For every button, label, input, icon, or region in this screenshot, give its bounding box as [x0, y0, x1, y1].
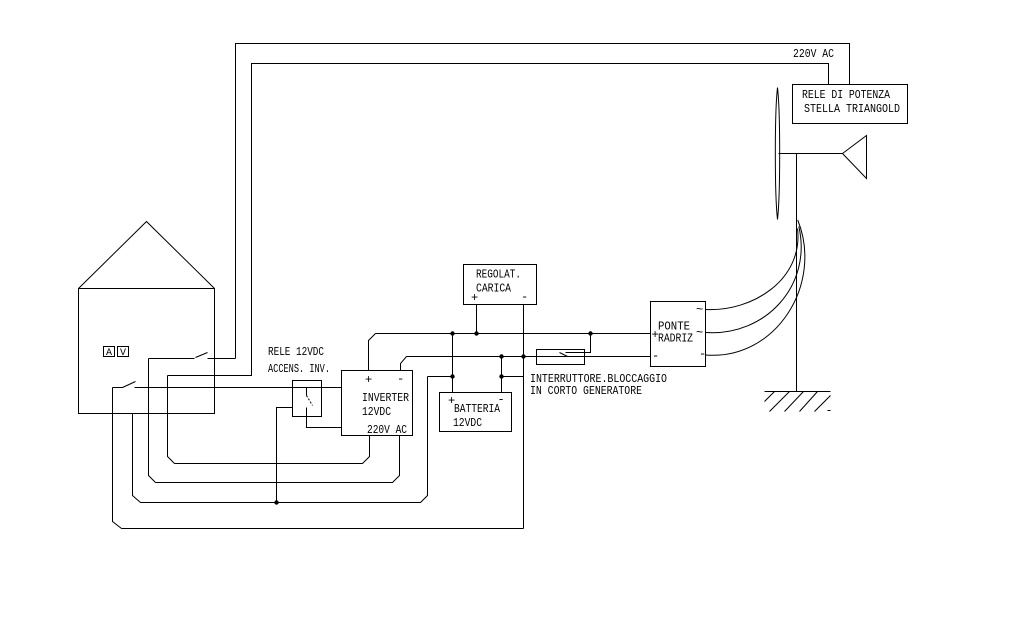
svg-text:STELLA TRIANGOLD: STELLA TRIANGOLD — [804, 102, 900, 116]
svg-text:INVERTER: INVERTER — [362, 391, 409, 405]
wire S3 to bus1 — [566, 334, 591, 353]
svg-text:+: + — [471, 291, 478, 305]
inverter U1 box — [342, 371, 413, 436]
svg-text:RELE DI POTENZA: RELE DI POTENZA — [802, 88, 891, 102]
svg-text:-: - — [699, 347, 706, 361]
wire row D (S2 to battery- rail) — [122, 528, 524, 530]
svg-text:IN CORTO GENERATORE: IN CORTO GENERATORE — [530, 384, 642, 398]
regulator U2 box REGOLAT. CARICA — [464, 265, 537, 305]
svg-text:ACCENS. INV.: ACCENS. INV. — [268, 362, 330, 376]
svg-text:-: - — [498, 393, 505, 407]
wire inverter - to bus2 — [401, 357, 407, 371]
wire bus2 (-12V rail) — [407, 356, 651, 358]
svg-text:12VDC: 12VDC — [453, 416, 482, 430]
relay K1 actuator (dashed) — [307, 396, 313, 406]
junction bus2/regulator- — [521, 354, 525, 358]
svg-text:12VDC: 12VDC — [362, 405, 391, 419]
relay K1 box RELE 12VDC ACCENS. INV. — [293, 381, 322, 417]
wire generator phase 2 (curve) — [706, 227, 802, 333]
wire regulator - down through bus2 to row D — [523, 305, 525, 529]
wire 220V AC line 1 (from house switch S1 up and across to relay box) — [236, 44, 850, 359]
svg-text:-: - — [521, 290, 528, 304]
wire bus3 right segment — [502, 376, 524, 378]
wind turbine tail fin — [843, 136, 867, 179]
svg-text:RADRIZ: RADRIZ — [658, 332, 693, 346]
wire battery + riser — [452, 334, 454, 393]
svg-text:V: V — [120, 348, 126, 359]
rectifier U3 box PONTE RADRIZ — [651, 302, 706, 367]
wire regulator + to bus1 — [476, 305, 478, 334]
wire descender from S1 to row B — [149, 359, 156, 483]
mast — [796, 154, 798, 392]
wire descender from S2 to row D — [113, 388, 122, 529]
wire bus3 left segment — [428, 376, 453, 378]
wire generator phase 1 (curve) — [706, 229, 798, 310]
house outline — [79, 289, 215, 414]
wire S2 to relay and inverter left wall — [135, 387, 342, 389]
wire relay K1 coil to row C — [277, 408, 293, 503]
svg-text:+: + — [448, 394, 455, 408]
svg-text:RELE 12VDC: RELE 12VDC — [268, 345, 324, 359]
wire descender from house bottom to row C — [133, 414, 141, 503]
svg-text:+: + — [365, 373, 372, 387]
wire 220V AC line 2 (riser with jog to house, across top to relay box) — [168, 64, 829, 376]
wire battery - riser — [501, 357, 503, 393]
junction bus3/battery- — [499, 374, 503, 378]
switch S3 blade — [560, 353, 568, 357]
wind turbine boom — [779, 153, 843, 155]
junction row C/relay coil — [274, 500, 278, 504]
svg-text:~: ~ — [696, 303, 703, 317]
svg-text:~: ~ — [696, 326, 703, 340]
relay K2 box RELE DI POTENZA STELLA TRIANGOLD — [793, 85, 908, 124]
svg-text:-: - — [397, 372, 404, 386]
svg-text:+: + — [652, 328, 659, 342]
svg-text:BATTERIA: BATTERIA — [454, 402, 501, 416]
junction bus3/battery+ — [450, 374, 454, 378]
voltmeter V box — [118, 347, 129, 357]
switch S2 (lower house switch) — [113, 382, 136, 388]
junction bus1/regulator+ — [474, 331, 478, 335]
svg-text:220V AC: 220V AC — [367, 423, 407, 437]
svg-text:A: A — [106, 348, 112, 359]
wire generator phase 3 (curve) — [706, 220, 805, 355]
svg-text:-: - — [652, 349, 659, 363]
junction bus1/battery+ — [450, 331, 454, 335]
wire inverter + to bus1 — [369, 334, 376, 371]
house roof — [79, 222, 215, 289]
wire descender riser2 jog to row A — [168, 376, 175, 464]
wire row B (to inverter 220V AC terminal) — [156, 436, 400, 483]
junction bus1/S3 — [588, 331, 592, 335]
switch S1 (upper house switch) — [149, 353, 236, 359]
wire row A (to inverter 220V AC terminal) — [175, 436, 370, 464]
ammeter A box — [104, 347, 115, 357]
switch S3 box (interruttore bloccaggio) — [537, 350, 585, 365]
svg-text:REGOLAT.: REGOLAT. — [476, 268, 521, 282]
wind turbine blade — [775, 88, 779, 220]
relay K1 contact pivot — [306, 388, 308, 396]
svg-text:220V AC: 220V AC — [793, 47, 834, 61]
svg-text:CARICA: CARICA — [476, 282, 512, 296]
relay K1 lower contact wire to inverter — [307, 408, 342, 428]
ground — [765, 391, 831, 393]
wire row C (house to relay coil and battery+ rail) — [141, 377, 428, 503]
junction bus2/battery- — [499, 354, 503, 358]
wire bus1 (+12V rail) — [376, 333, 651, 335]
battery B1 box — [440, 393, 512, 432]
